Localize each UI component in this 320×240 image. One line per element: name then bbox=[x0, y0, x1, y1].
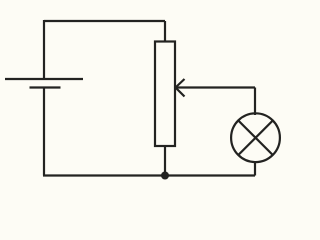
wire rheostat bottom lead bbox=[164, 146, 166, 176]
lamp L1 cross stroke 2 bbox=[238, 121, 272, 156]
battery B1 positive plate bbox=[5, 78, 83, 80]
wire left vertical upper (battery top lead) bbox=[43, 20, 45, 79]
wire rheostat top lead bbox=[164, 21, 166, 42]
wiper arrow of rheostat bbox=[176, 79, 256, 97]
resistor R1 (rheostat body) bbox=[155, 42, 175, 147]
lamp L1 cross stroke 1 bbox=[238, 121, 272, 156]
junction node at bottom bbox=[161, 172, 169, 180]
wire right vertical upper (lamp top lead) bbox=[254, 88, 256, 116]
wire bottom horizontal bbox=[43, 174, 255, 176]
wire left vertical lower (battery bottom lead) bbox=[43, 88, 45, 176]
lamp L1 circle bbox=[231, 113, 280, 162]
wire right vertical lower (lamp bottom lead) bbox=[254, 161, 256, 176]
battery B1 negative plate bbox=[30, 86, 61, 88]
wire top horizontal bbox=[44, 20, 165, 22]
